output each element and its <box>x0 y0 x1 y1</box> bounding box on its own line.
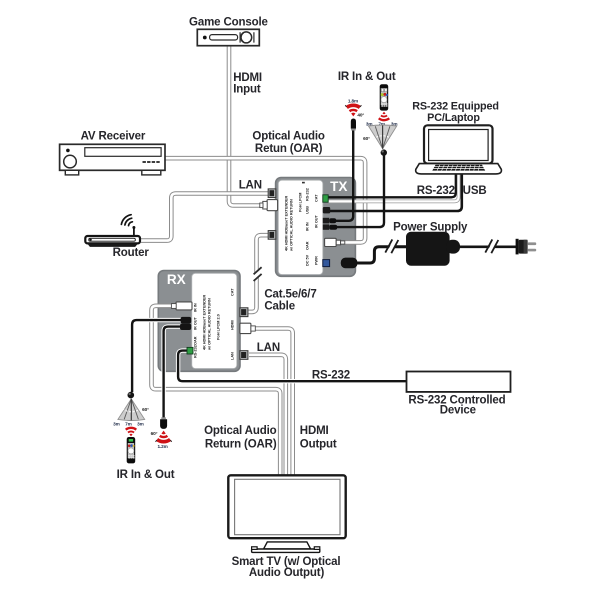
svg-text:Game Console: Game Console <box>189 17 268 29</box>
svg-text:CAT: CAT <box>231 288 235 296</box>
svg-text:Device: Device <box>440 405 476 417</box>
svg-text:PoH LPCM: PoH LPCM <box>299 193 303 212</box>
svg-text:IR In & Out: IR In & Out <box>338 71 396 83</box>
svg-text:OAR: OAR <box>194 336 198 345</box>
svg-text:RS-232: RS-232 <box>306 188 310 201</box>
svg-text:w/ OPTICAL AUDIO RETURN: w/ OPTICAL AUDIO RETURN <box>208 298 212 351</box>
svg-text:TX: TX <box>330 179 347 194</box>
svg-text:IR In & Out: IR In & Out <box>117 469 175 481</box>
svg-text:RS-232: RS-232 <box>194 345 198 358</box>
svg-text:1.2m: 1.2m <box>157 444 167 449</box>
svg-text:RS-232: RS-232 <box>312 370 350 382</box>
svg-text:3m: 3m <box>113 421 120 426</box>
svg-text:Cat.5e/6/7: Cat.5e/6/7 <box>264 289 316 301</box>
svg-text:PoH LPCM 2.0: PoH LPCM 2.0 <box>217 314 221 340</box>
svg-text:PWR: PWR <box>315 256 319 265</box>
svg-text:LAN: LAN <box>239 180 262 192</box>
svg-text:w/ OPTICAL AUDIO RETURN: w/ OPTICAL AUDIO RETURN <box>290 199 294 252</box>
svg-text:Cable: Cable <box>264 301 295 313</box>
svg-text:3m: 3m <box>137 421 144 426</box>
svg-text:60°: 60° <box>142 407 149 412</box>
svg-text:60°: 60° <box>151 431 158 436</box>
svg-text:LAN: LAN <box>257 342 280 354</box>
svg-text:IR IN: IR IN <box>306 222 310 231</box>
svg-text:IR IN: IR IN <box>194 303 198 312</box>
svg-text:7m: 7m <box>125 421 132 426</box>
svg-text:USB: USB <box>463 185 487 197</box>
svg-text:1.8m: 1.8m <box>348 98 358 103</box>
svg-text:RX: RX <box>167 272 186 287</box>
svg-text:OAR: OAR <box>306 241 310 250</box>
svg-text:HDMI: HDMI <box>231 320 235 330</box>
svg-text:Audio Output): Audio Output) <box>249 567 325 579</box>
svg-text:Return (OAR): Return (OAR) <box>205 438 277 450</box>
svg-text:Router: Router <box>113 247 150 259</box>
svg-text:RS-232 Equipped: RS-232 Equipped <box>412 100 499 112</box>
svg-text:40°: 40° <box>357 113 364 118</box>
svg-text:IR OUT: IR OUT <box>315 214 319 228</box>
svg-text:60°: 60° <box>363 136 370 141</box>
svg-text:Input: Input <box>233 83 261 95</box>
svg-text:4K HDMI HDBaseT EXTENDER: 4K HDMI HDBaseT EXTENDER <box>285 195 289 251</box>
svg-text:IR OUT: IR OUT <box>194 316 198 330</box>
svg-text:4K HDMI HDBaseT EXTENDER: 4K HDMI HDBaseT EXTENDER <box>203 294 207 350</box>
svg-text:HDMI: HDMI <box>300 425 329 437</box>
svg-text:HDMI: HDMI <box>233 72 262 84</box>
svg-text:DC 5V: DC 5V <box>306 254 310 266</box>
svg-text:Retun (OAR): Retun (OAR) <box>255 143 323 155</box>
svg-text:AV Receiver: AV Receiver <box>81 130 146 142</box>
svg-text:Power Supply: Power Supply <box>393 222 468 234</box>
svg-text:USB: USB <box>306 206 310 214</box>
svg-text:RS-232: RS-232 <box>417 185 455 197</box>
svg-text:Output: Output <box>300 438 337 450</box>
svg-text:Optical Audio: Optical Audio <box>252 130 324 142</box>
svg-text:CAT: CAT <box>315 194 319 202</box>
svg-text:LAN: LAN <box>231 352 235 360</box>
svg-text:Optical Audio: Optical Audio <box>204 425 276 437</box>
svg-text:PC/Laptop: PC/Laptop <box>427 112 480 124</box>
